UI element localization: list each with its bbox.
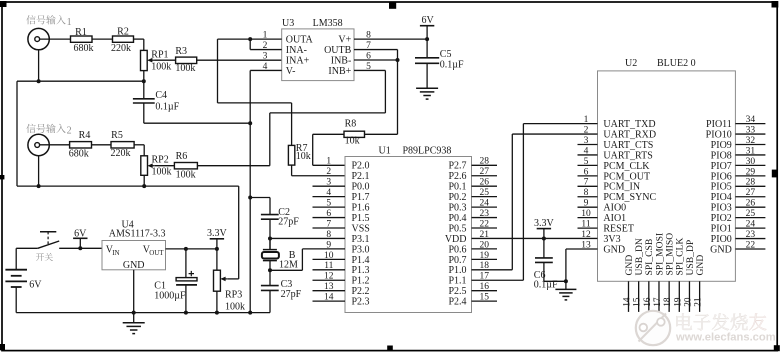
node 6V junction [78,246,82,250]
U2 pin 33 stub [735,133,765,135]
label 27pF C3 [281,289,302,300]
svg-text:P1.4: P1.4 [352,255,370,266]
svg-text:2: 2 [67,126,72,137]
U2 pin number 20 [684,297,694,307]
resistor R2 [113,36,134,42]
U2 pin 4 name UART_RTS [603,150,652,161]
U2 pin 28 stub [735,185,765,187]
U1 pin number 6 [326,209,331,219]
U1 pin number 19 [479,251,489,261]
svg-text:U1: U1 [379,145,391,156]
wire UART_RXD to U1 P1.0 [512,133,597,135]
svg-text:OUTA: OUTA [286,35,314,46]
node crystal bottom junction [268,268,272,272]
resistor R4 [70,142,92,148]
U3 pin 4 name V- [286,66,296,77]
svg-text:100k: 100k [225,302,245,313]
label switch kaiguan [36,253,53,261]
U2 pin 10 stub [578,217,598,219]
potentiometer RP2 [141,156,155,176]
svg-text:RESET: RESET [603,224,634,235]
label C1 [154,281,166,292]
svg-text:P3.1: P3.1 [352,234,370,245]
wire left riser [16,81,18,186]
U2 pin 25 stub [735,217,765,219]
wire U3 pin7 OUTB [354,49,398,51]
U2 pin 3 stub [578,144,598,146]
svg-text:PIO1: PIO1 [711,224,732,235]
resistor R7 [288,145,294,165]
regulator U4 AMS1117-3.3 body [102,241,166,270]
U2 pin 32 name PIO9 [711,140,732,151]
svg-text:PIO5: PIO5 [711,182,732,193]
U1 pin 2 name P2.1 [352,171,370,182]
U1 pin 28 stub [472,164,498,166]
U1 pin 16 stub [472,290,498,292]
svg-text:U3: U3 [282,18,294,29]
wire R8 right to OUTB [365,133,398,135]
U2 pin 8 name PCM_SYNC [603,192,656,203]
U2 pin number 10 [581,209,591,219]
svg-text:www.elecfans.com: www.elecfans.com [675,332,776,344]
U1 pin 27 stub [472,175,498,177]
node BNC1 ground junction [37,79,41,83]
svg-text:P1.3: P1.3 [352,265,370,276]
U1 pin 13 name P2.2 [352,286,370,297]
U2 pin 30 name PIO7 [711,161,732,172]
label U4 [122,219,134,230]
U2 pin 28 name PIO5 [711,182,732,193]
svg-text:P0.6: P0.6 [448,244,466,255]
U3 pin number 3 [263,51,268,61]
svg-text:19: 19 [673,297,683,307]
U1 pin number 21 [479,230,489,240]
label 680k R4 [69,149,89,160]
svg-text:P2.0: P2.0 [352,161,370,172]
U2 pin 22 name GND [710,244,732,255]
node RP3 ground junction [215,311,219,315]
U2 pin 34 stub [735,123,765,125]
ground bus [16,312,270,314]
svg-text:P1.5: P1.5 [352,213,370,224]
resistor R5 [111,142,134,148]
U1 pin 17 name P1.1 [448,276,466,287]
U1 pin 7 name VSS [352,223,370,234]
resistor R6 [174,163,197,169]
U1 pin 6 stub [313,217,346,219]
label R8 [345,119,357,130]
U1 pin 19 stub [472,258,498,260]
svg-text:6V: 6V [29,280,42,291]
U1 pin 20 name P0.6 [448,244,466,255]
U1 pin 25 name P0.2 [448,192,466,203]
crystal B 12M [262,238,279,285]
node C1 junction [184,247,188,251]
U2 pin number 21 [694,297,704,307]
U1 pin number 12 [324,272,334,282]
watermark text dianzifashaoyou [676,313,766,330]
svg-text:P0.3: P0.3 [448,203,466,214]
U3 pin number 6 [366,51,371,61]
U1 pin number 22 [479,219,489,229]
svg-text:P89LPC938: P89LPC938 [403,145,452,156]
label RP2 [152,155,169,166]
U1 pin 7 stub [313,227,346,229]
U2 pin number 9 [584,199,589,209]
svg-text:VDD: VDD [445,234,467,245]
wire C4 bottom [143,103,145,123]
U1 pin 8 name P3.1 [352,234,370,245]
U2 pin number 5 [584,157,589,167]
wire C2 branch [250,197,270,199]
U2 pin 24 name PIO1 [711,224,732,235]
label 100k RP1 [151,62,171,73]
wire U3 pin8 V+ to 6V [354,38,427,40]
node C1 ground junction [184,311,188,315]
label 100k R6 [176,169,196,180]
U2 pin number 12 [581,230,591,240]
node U2 ground junction [564,279,568,283]
U2 pin 24 stub [735,227,765,229]
U3 pin number 1 [263,31,268,41]
U2 pin number 19 [673,297,683,307]
label R5 [111,130,123,141]
svg-text:P1.6: P1.6 [352,203,370,214]
svg-text:18: 18 [663,297,673,307]
U2 pin 11 name RESET [603,224,634,235]
label R3 [175,46,187,57]
switch S1 [16,232,102,249]
wire RP1 wiper to R3 [155,59,176,61]
wire R7 to U1 pin2 [291,165,293,176]
potentiometer RP1 [141,50,155,70]
svg-text:100k: 100k [176,169,196,180]
svg-text:680k: 680k [74,43,94,54]
capacitor C4 [133,99,155,103]
label AMS1117-3.3 [109,228,166,239]
label R7 [296,143,308,154]
label 27pF C2 [278,216,299,227]
U1 pin 24 stub [472,206,498,208]
battery 6V [5,248,27,312]
connector J2 BNC input 2 [28,134,49,155]
U2 pin 29 name PIO6 [711,171,732,182]
svg-text:14: 14 [623,297,633,307]
svg-text:PIO0: PIO0 [711,234,732,245]
U1 pin number 15 [479,293,489,303]
U1 pin 22 name P0.5 [448,223,466,234]
svg-text:C4: C4 [155,90,167,101]
wire U1 pin9 P3.0 to crystal [302,248,345,250]
U1 pin 26 name P0.1 [448,182,466,193]
svg-text:V+: V+ [338,35,351,46]
label 0.1uF C5 [440,59,464,70]
label LM358 [313,18,343,29]
U2 pin number 25 [746,209,756,219]
label C5 [440,49,452,60]
label 680k R1 [74,43,94,54]
capacitor C5 [415,39,439,88]
U2 pin 25 name PIO2 [711,213,732,224]
U1 pin 10 name P1.4 [352,255,370,266]
U1 pin 23 name P0.4 [448,213,466,224]
U1 pin number 8 [326,230,331,240]
svg-text:R4: R4 [79,130,91,141]
svg-text:R1: R1 [75,27,87,38]
capacitor C6 [535,238,553,281]
svg-text:OUTB: OUTB [324,45,352,56]
wire U3 pin4 V- [250,69,282,71]
U1 pin number 18 [479,261,489,271]
U1 pin 19 name P0.7 [448,255,466,266]
U3 pin number 2 [263,41,268,51]
svg-text:PIO4: PIO4 [711,192,732,203]
ground below C5 [416,88,438,99]
U1 pin 18 name P1.0 [448,265,466,276]
node V- C4 junction [248,121,252,125]
svg-text:PIO11: PIO11 [706,119,732,130]
U2 pin 20 bottom stub USB_DP [688,281,690,312]
op-amp U3 LM358 body [282,29,354,81]
svg-text:UART_RTS: UART_RTS [603,150,652,161]
U1 pin number 4 [326,188,331,198]
U2 pin number 4 [584,146,589,156]
U2 pin number 13 [581,240,591,250]
svg-text:P2.5: P2.5 [448,286,466,297]
U2 pin number 17 [653,297,663,307]
U1 pin 24 name P0.3 [448,203,466,214]
svg-text:GND: GND [710,244,732,255]
svg-text:P3.0: P3.0 [352,244,370,255]
U2 pin 23 name PIO0 [711,234,732,245]
U1 pin 12 stub [313,279,346,281]
MCU U1 P89LPC938 body [345,157,472,313]
wire V- rail down [249,70,251,312]
node RP1-bus junction [142,79,146,83]
capacitor C2 [261,215,279,220]
svg-text:220k: 220k [111,43,131,54]
label RP3 [225,290,242,301]
wire BNC1 to R1 [40,38,71,40]
svg-text:PCM_IN: PCM_IN [603,182,640,193]
U2 pin 7 stub [578,185,598,187]
wire R1 to R2 [92,38,113,40]
U2 pin 8 stub [578,196,598,198]
svg-text:100k: 100k [151,62,171,73]
svg-text:PIO3: PIO3 [711,203,732,214]
U2 pin 17 name SPI_MOSI [654,233,665,276]
svg-text:PIO7: PIO7 [711,161,732,172]
U2 pin number 7 [584,178,589,188]
svg-text:AMS1117-3.3: AMS1117-3.3 [109,228,166,239]
U4 pin name GND [123,260,145,271]
U2 pin 6 name PCM_OUT [603,171,650,182]
U2 pin 29 stub [735,175,765,177]
U1 pin 27 name P2.6 [448,171,466,182]
node BNC2 ground junction [37,184,41,188]
svg-text:680k: 680k [69,149,89,160]
U1 pin number 27 [479,167,489,177]
U1 pin 1 name P2.0 [352,161,370,172]
label 6V battery [29,280,42,291]
U1 pin number 10 [324,251,334,261]
svg-text:R5: R5 [111,130,123,141]
U2 pin 16 name SPI_CSB [644,239,655,276]
U1 pin 5 name P1.6 [352,203,370,214]
U1 pin 25 stub [472,196,498,198]
U1 pin number 14 [324,293,334,303]
svg-text:17: 17 [653,297,663,307]
watermark logo [636,311,670,345]
U2 pin number 1 [584,115,589,125]
svg-text:P2.3: P2.3 [352,297,370,308]
U3 pin 1 name OUTA [286,35,314,46]
U2 pin number 24 [746,220,756,230]
resistor R1 [71,36,93,42]
U2 pin number 27 [746,188,756,198]
node V+ 6V junction [425,37,429,41]
U2 pin number 2 [584,125,589,135]
label 100k RP3 [225,302,245,313]
resistor R8 [344,131,365,137]
U2 pin 12 name 3V3 [603,234,620,245]
U2 pin number 16 [643,297,653,307]
label 220k R5 [111,148,131,159]
label 100k RP2 [152,167,172,178]
wire U3 pin5 INB+ [354,69,385,71]
svg-text:GND: GND [695,255,706,276]
svg-text:P2.1: P2.1 [352,171,370,182]
U1 pin number 1 [326,157,331,167]
U1 pin number 7 [326,219,331,229]
U1 pin 11 name P1.3 [352,265,370,276]
svg-text:PCM_SYNC: PCM_SYNC [603,192,656,203]
node 3.3V C6 junction [542,236,546,240]
svg-text:P0.1: P0.1 [448,182,466,193]
label 0.1uF C6 [534,280,558,291]
svg-text:P1.1: P1.1 [448,276,466,287]
label U1 [379,145,391,156]
U2 pin 10 name AIO1 [603,213,626,224]
U1 pin 28 name P2.7 [448,161,466,172]
U2 pin number 8 [584,188,589,198]
label C6 [534,270,546,281]
U1 pin 11 stub [313,269,346,271]
U2 pin number 30 [746,157,756,167]
svg-text:AIO0: AIO0 [603,203,626,214]
svg-text:6V: 6V [421,15,434,26]
label C3 [281,279,293,290]
U1 pin 20 stub [472,248,498,250]
svg-text:3.3V: 3.3V [207,228,228,239]
U2 pin 18 bottom stub SPI_MISO [668,281,670,312]
svg-text:RP3: RP3 [225,290,242,301]
svg-text:P2.7: P2.7 [448,161,466,172]
wire VDD to 3V3 [472,237,598,239]
wire BNC1 ground stub [38,50,40,81]
U2 pin 5 stub [578,164,598,166]
U2 pin number 18 [663,297,673,307]
svg-text:100k: 100k [152,167,172,178]
U1 pin 4 stub [313,196,346,198]
wire C2 to crystal [269,219,271,249]
svg-text:P1.0: P1.0 [448,265,466,276]
svg-text:GND: GND [123,260,145,271]
svg-text:10k: 10k [296,151,311,162]
svg-text:3V3: 3V3 [603,234,620,245]
svg-text:R6: R6 [176,151,188,162]
main ground symbol [123,313,145,334]
U1 pin 10 stub [313,258,346,260]
U1 pin 16 name P2.5 [448,286,466,297]
U2 pin number 11 [581,220,590,230]
U1 pin number 11 [324,261,333,271]
U2 pin number 28 [746,178,756,188]
U2 pin 1 name UART_TXD [603,119,655,130]
svg-text:PIO10: PIO10 [706,129,732,140]
wire U4 GND [133,270,135,313]
svg-text:INA-: INA- [286,45,307,56]
U2 pin 19 name SPI_CLK [675,238,686,276]
U1 pin 15 stub [472,300,498,302]
U1 pin number 28 [479,157,489,167]
watermark url [675,332,776,344]
label 10k R7 [296,151,311,162]
svg-text:PCM_CLK: PCM_CLK [603,161,650,172]
label U2 [625,58,637,69]
module U2 BLUE2.0 body [598,71,736,281]
wire R3 to op-amp INA+ [197,59,282,61]
connector J1 BNC input 1 [28,28,49,49]
svg-text:20: 20 [684,297,694,307]
U3 pin 8 name V+ [338,35,351,46]
U1 pin number 24 [479,199,489,209]
label RP1 [151,50,168,61]
resistor R3 [176,57,197,63]
U2 pin number 26 [746,199,756,209]
U2 pin 2 name UART_RXD [603,129,656,140]
U2 pin 19 bottom stub SPI_CLK [678,281,680,312]
U2 pin 9 stub [578,206,598,208]
label 12M [279,260,298,271]
svg-text:U2: U2 [625,58,637,69]
U2 pin number 29 [746,167,756,177]
U2 pin 11 stub [578,227,598,229]
power 3.3V regulator output [207,228,228,249]
U1 pin 3 stub [313,185,346,187]
U2 pin 20 name USB_DP [685,240,696,276]
svg-text:0.1µF: 0.1µF [155,101,179,112]
svg-text:27pF: 27pF [281,289,302,300]
wire U3 pin6 INB- [354,59,398,61]
svg-text:100k: 100k [175,63,195,74]
svg-text:P0.2: P0.2 [448,192,466,203]
svg-text:PIO9: PIO9 [711,140,732,151]
label BLUE2.0 [657,58,696,69]
U2 pin 31 name PIO8 [711,150,732,161]
svg-text:INA+: INA+ [286,55,310,66]
power 6V regulator input [73,228,87,248]
U1 pin number 25 [479,188,489,198]
U2 pin 27 name PIO4 [711,192,732,203]
wire RP1 bottom to bias bus [143,71,145,99]
svg-text:PIO6: PIO6 [711,171,732,182]
svg-text:P0.5: P0.5 [448,223,466,234]
U2 pin 5 name PCM_CLK [603,161,650,172]
U3 pin 5 name INB+ [328,66,351,77]
wire U4 VOUT [166,248,217,250]
U2 pin number 14 [623,297,633,307]
